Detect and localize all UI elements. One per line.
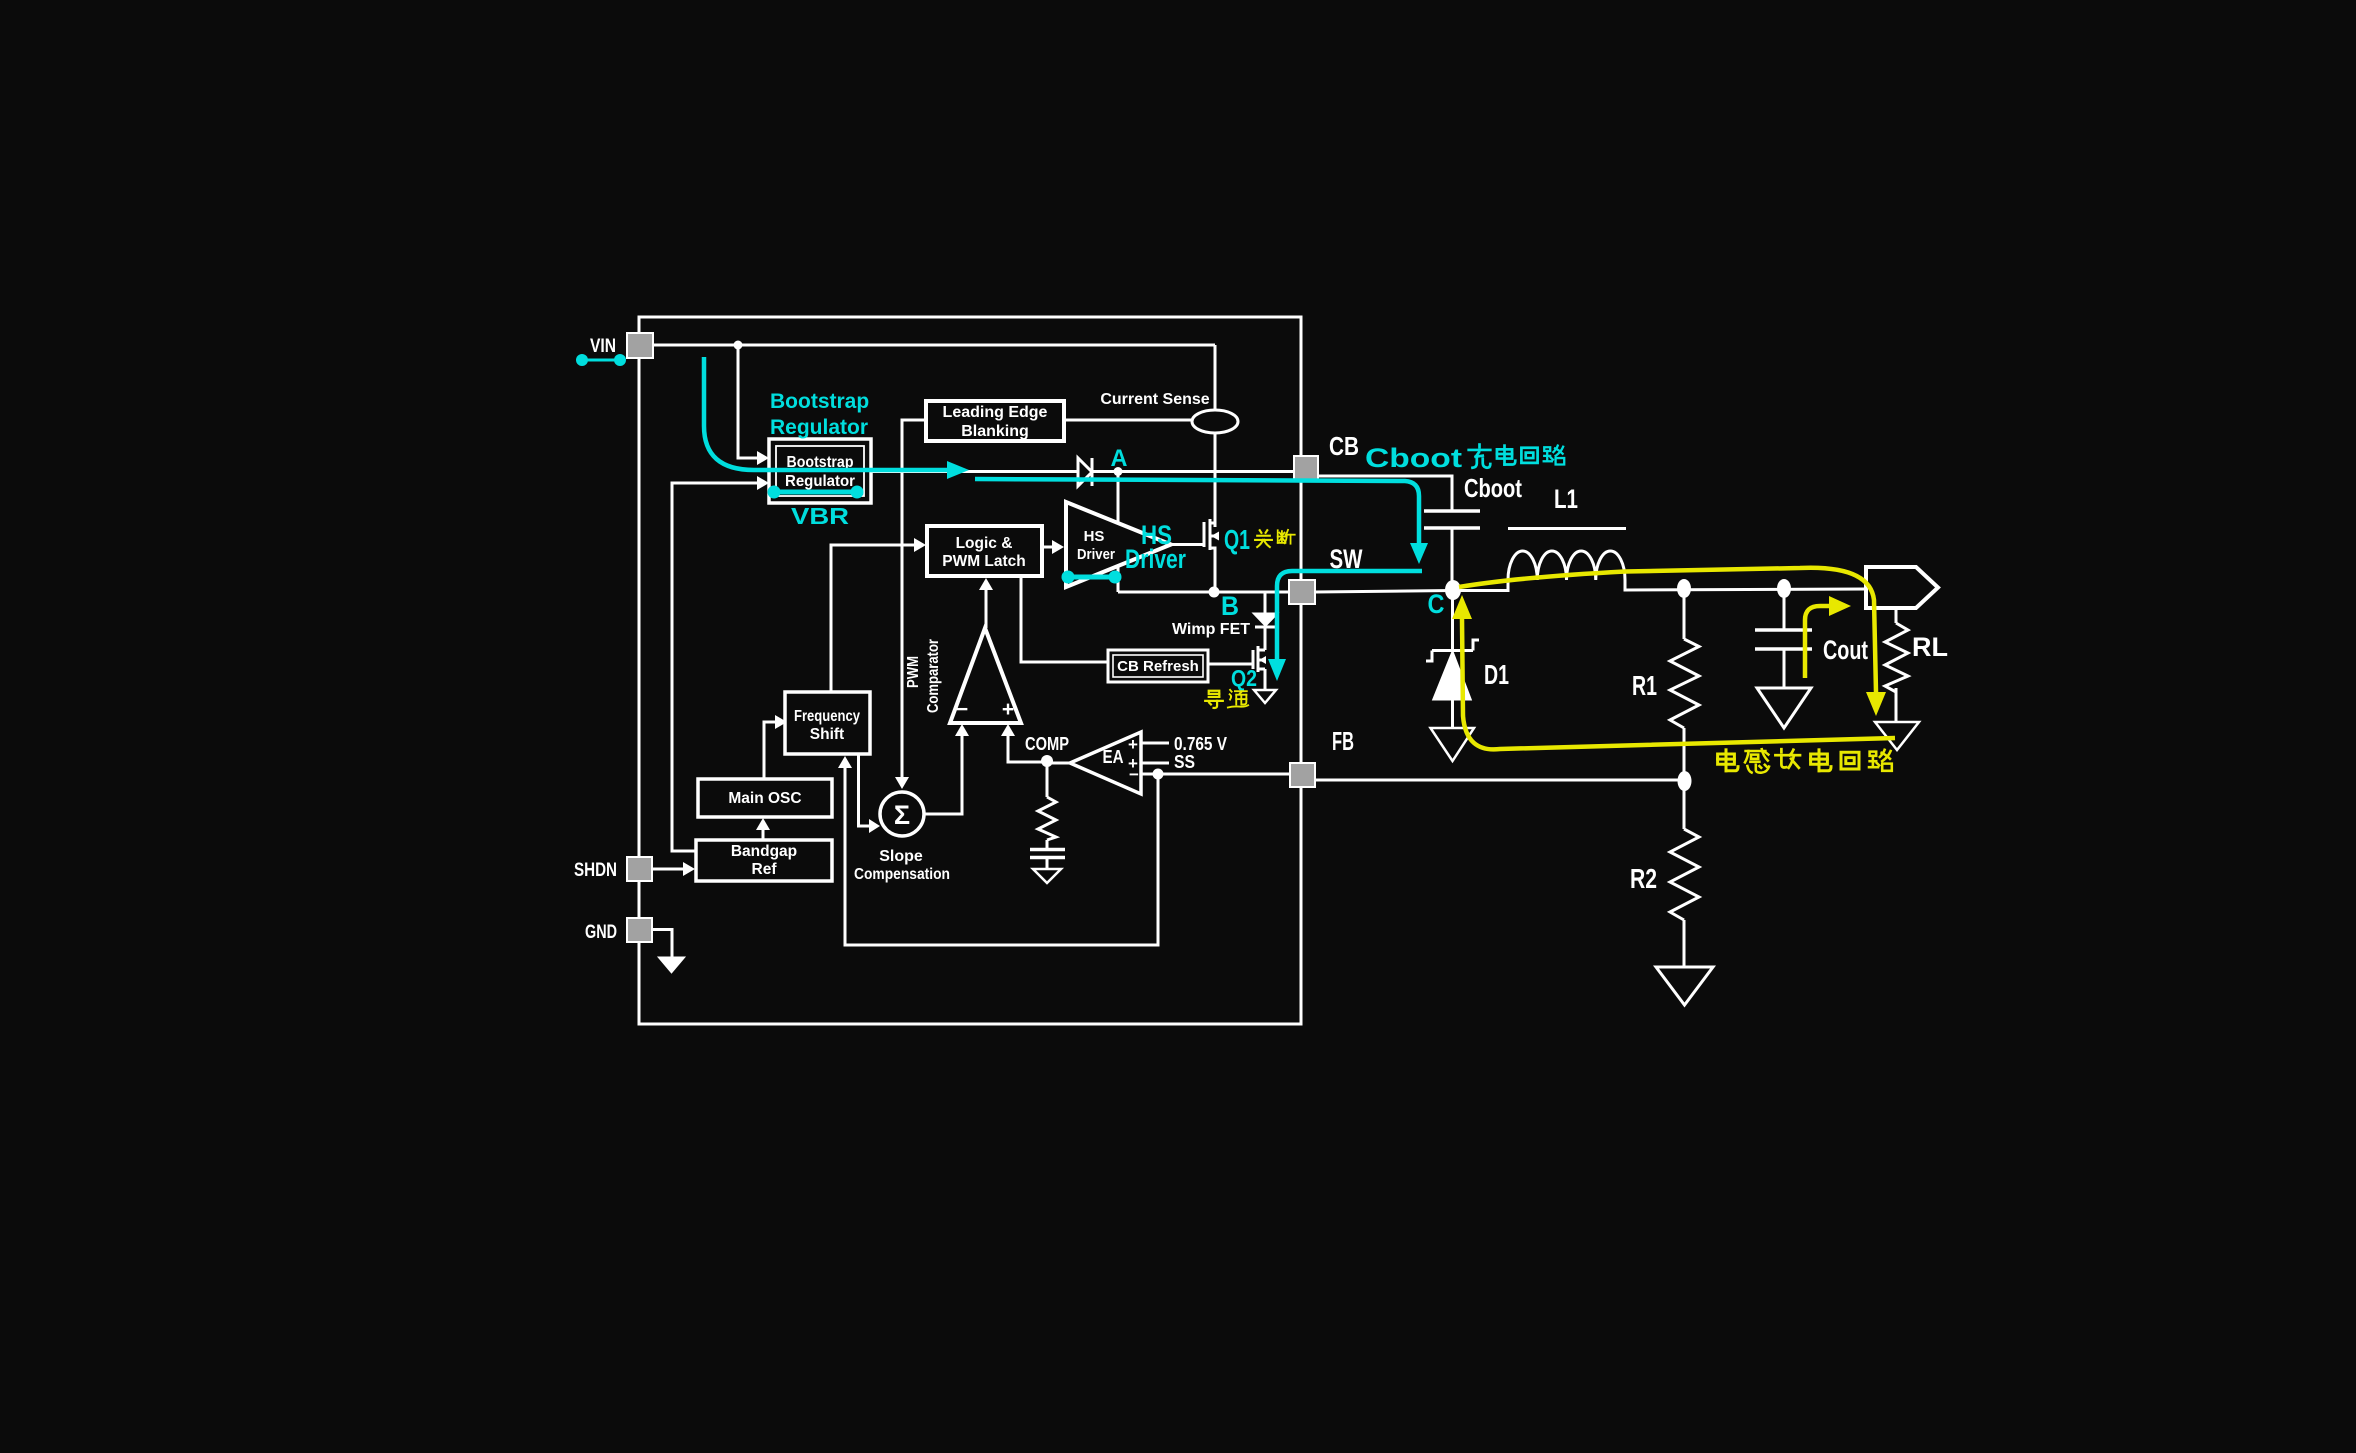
svg-text:COMP: COMP: [1025, 734, 1069, 754]
wimp FET body diode: [1255, 614, 1276, 627]
wire comp cap to ground: [1046, 858, 1049, 869]
wire EA refs stub 0.765V: [1141, 742, 1169, 745]
svg-text:Regulator: Regulator: [785, 473, 855, 490]
wire latch to CB refresh: [1021, 576, 1108, 662]
svg-text:Main OSC: Main OSC: [728, 790, 801, 807]
svg-text:Slope: Slope: [879, 848, 923, 865]
svg-text:CB Refresh: CB Refresh: [1117, 658, 1199, 675]
COMPONENTS: [658, 401, 1938, 1005]
pin FB: [1290, 763, 1315, 787]
svg-text:VIN: VIN: [590, 336, 616, 357]
Bootstrap Regulator box U-VBR: [769, 439, 871, 503]
node A junction dot: [1114, 467, 1123, 476]
wire VBR output to CB pin: [871, 470, 1294, 473]
svg-text:+: +: [1128, 735, 1138, 754]
Logic and PWM Latch box: [927, 526, 1042, 576]
svg-text:Driver: Driver: [1125, 544, 1186, 574]
capacitor Cboot: [1424, 511, 1480, 528]
wire EA output to COMP: [1047, 762, 1070, 765]
svg-text:CB: CB: [1329, 431, 1359, 461]
wire wimp diode to Q2: [1264, 627, 1267, 650]
current sense ellipse: [1192, 410, 1238, 433]
outer IC boundary box: [639, 317, 1301, 1024]
wire Cout branch: [1783, 589, 1786, 630]
svg-text:SHDN: SHDN: [574, 860, 617, 881]
svg-text:Wimp FET: Wimp FET: [1172, 621, 1250, 638]
svg-text:0.765 V: 0.765 V: [1174, 734, 1227, 754]
comp RC resistor: [1038, 797, 1056, 840]
wire comp RC middle: [1046, 840, 1049, 849]
wire Cboot to node C: [1451, 528, 1454, 581]
arrow SHDN into bandgap: [683, 862, 695, 876]
wire EA minus to FB pin: [1141, 773, 1290, 776]
arrow comparator into latch: [979, 578, 993, 590]
wire node C to D1: [1451, 591, 1454, 651]
wire cyan charge path A to CB to Cboot: [975, 479, 1419, 543]
svg-text:RL: RL: [1912, 632, 1948, 662]
svg-text:L1: L1: [1554, 484, 1578, 514]
wire R2 to ground: [1683, 920, 1686, 966]
arrow into bootstrap upper: [757, 451, 769, 465]
diode at node A: [1078, 458, 1092, 486]
wire cyan path SW to Q2: [1277, 571, 1422, 659]
wire node C to inductor: [1452, 580, 1508, 591]
EA triangle: [1070, 732, 1141, 794]
svg-text:Bandgap: Bandgap: [731, 843, 797, 860]
wire CB pin external to Cboot: [1318, 476, 1452, 511]
ground Cout: [1757, 688, 1811, 728]
wire pwm comparator to latch: [985, 590, 988, 628]
svg-text:−: −: [956, 698, 968, 721]
arrow into freq shift left: [775, 715, 787, 729]
wire bandgap to bootstrap reg lower input: [672, 483, 757, 851]
wire VIN rail top: [653, 344, 1215, 347]
svg-text:Current Sense: Current Sense: [1100, 391, 1209, 408]
arrow into bootstrap lower: [757, 476, 769, 490]
wire latch to HS driver: [1042, 546, 1052, 549]
svg-text:Q1: Q1: [1224, 524, 1250, 555]
wire R1 to FB junction: [1683, 728, 1686, 780]
ground under Q2: [1254, 690, 1276, 703]
arrow latch to HS driver: [1052, 540, 1064, 554]
transistor Q1: [1204, 519, 1215, 592]
wire GND pin to ground: [652, 930, 672, 958]
junction VIN rail: [734, 341, 743, 350]
wire leading edge blanking to current sense: [1064, 419, 1192, 422]
wire R1 branch: [1683, 589, 1686, 639]
arrow summer into comparator minus: [955, 724, 969, 736]
svg-text:PWM Latch: PWM Latch: [942, 553, 1026, 570]
wire leading edge blanking to slope summer: [902, 420, 926, 777]
svg-text:Blanking: Blanking: [961, 423, 1029, 440]
label Cboot charge loop CJK: [1469, 445, 1565, 468]
wire D1 to ground: [1451, 699, 1454, 728]
comp RC capacitor: [1030, 850, 1065, 858]
slope summer circle: [880, 792, 924, 836]
Main OSC box: [698, 779, 832, 817]
svg-text:R1: R1: [1632, 670, 1657, 701]
node B junction dot: [1209, 587, 1220, 598]
node VIN highlight dumbbell: [576, 354, 626, 366]
capacitor Cout: [1755, 630, 1812, 649]
svg-text:Driver: Driver: [1077, 546, 1115, 563]
wire COMP compensation branch: [1046, 762, 1049, 797]
svg-text:Comparator: Comparator: [925, 639, 942, 713]
Frequency Shift box: [785, 692, 870, 754]
Bandgap Ref box: [696, 840, 832, 881]
arrow feedback into freq shift bottom: [838, 756, 852, 768]
wire node A down to HS driver top: [1117, 472, 1120, 593]
svg-text:Ref: Ref: [752, 861, 778, 878]
svg-text:Compensation: Compensation: [854, 866, 950, 883]
label Q2 on CJK: [1205, 690, 1248, 708]
svg-text:Shift: Shift: [810, 726, 844, 743]
wire yellow Cout arrow: [1805, 606, 1829, 678]
wire bandgap to main osc: [762, 828, 765, 840]
wire freq shift top to logic latch: [831, 545, 914, 692]
wire COMP node to comparator plus: [1008, 736, 1047, 762]
ground R2: [1656, 967, 1713, 1005]
ground RL: [1875, 722, 1919, 750]
CYAN OVERLAY: [576, 354, 1428, 681]
svg-text:HS: HS: [1084, 528, 1105, 545]
CB Refresh box: [1108, 650, 1208, 682]
ground comp RC: [1033, 869, 1061, 883]
pin CB: [1294, 456, 1318, 480]
wire cyan Cboot charge path from VIN: [704, 357, 947, 470]
node C junction dot: [1445, 580, 1461, 600]
wire RL to ground: [1895, 688, 1898, 722]
svg-text:Cboot: Cboot: [1365, 443, 1462, 473]
svg-text:Logic &: Logic &: [956, 535, 1013, 552]
HS driver triangle: [1066, 502, 1171, 587]
Leading Edge Blanking box: [926, 401, 1064, 441]
wire SW pin external to node C: [1315, 591, 1452, 593]
junction EA feedback: [1153, 769, 1164, 780]
wire yellow discharge loop top C over L1 down at RL: [1459, 568, 1876, 692]
pin squares: [627, 333, 1318, 942]
svg-text:Q2: Q2: [1231, 665, 1257, 691]
wire VIN to current sense: [1214, 345, 1217, 527]
wire RL branch: [1895, 608, 1898, 623]
wire main osc to freq shift: [764, 722, 775, 779]
diode D1 schottky: [1426, 640, 1479, 699]
arrow COMP into comparator plus: [1001, 724, 1015, 736]
arrow bandgap into main osc: [756, 818, 770, 830]
wire freq shift to slope summer: [859, 754, 870, 826]
wire inductor to output rail: [1625, 580, 1866, 590]
pin SHDN: [627, 857, 652, 881]
wire SHDN to bandgap: [652, 868, 683, 871]
wire VIN junction to bootstrap reg input: [738, 345, 757, 458]
wire R2 branch: [1683, 781, 1686, 829]
node HS driver highlight dumbbell: [1062, 571, 1122, 584]
svg-text:+: +: [1002, 698, 1014, 721]
inductor L1: [1508, 551, 1625, 580]
white arrowheads: [683, 451, 1064, 876]
resistor R1: [1670, 639, 1699, 728]
arrow blanking into summer top: [895, 777, 909, 789]
PWM comparator triangle: [950, 628, 1021, 723]
output pentagon flag: [1866, 567, 1938, 608]
wire yellow discharge loop bottom D1 up to C: [1462, 619, 1895, 749]
svg-text:FB: FB: [1332, 726, 1354, 756]
WHITE TEXT: [574, 336, 1948, 943]
resistor RL: [1885, 623, 1908, 692]
wire Q2 source to ground: [1264, 669, 1267, 690]
svg-text:A: A: [1111, 445, 1128, 472]
wire SW rail B: [1118, 591, 1289, 594]
junction R1 top: [1677, 579, 1691, 598]
YELLOW OVERLAY: [1452, 568, 1895, 750]
svg-text:Frequency: Frequency: [794, 708, 860, 725]
svg-text:Bootstrap: Bootstrap: [770, 390, 869, 413]
svg-text:Cout: Cout: [1823, 635, 1868, 665]
svg-text:Σ: Σ: [894, 800, 910, 830]
svg-text:PWM: PWM: [905, 656, 922, 688]
svg-text:GND: GND: [585, 922, 617, 943]
arrow into summer left: [869, 819, 880, 833]
node VBR highlight dumbbell: [768, 486, 864, 499]
wire EA refs stub SS: [1141, 762, 1169, 765]
ground D1: [1431, 728, 1475, 761]
label inductor discharge loop CJK: [1718, 749, 1892, 772]
pin GND: [627, 918, 652, 942]
arrow into logic latch: [914, 538, 926, 552]
svg-text:−: −: [1129, 765, 1139, 784]
wire wimp FET branch: [1264, 592, 1267, 614]
wire HS driver output to Q1 gate: [1171, 543, 1204, 546]
svg-text:Leading Edge: Leading Edge: [943, 404, 1048, 421]
wire Cout to ground: [1783, 649, 1786, 688]
svg-text:SS: SS: [1174, 752, 1195, 772]
junction Cout top: [1777, 579, 1791, 598]
transistor Q2: [1253, 646, 1265, 672]
node COMP junction dot: [1041, 755, 1053, 767]
label Q1 off CJK: [1255, 530, 1295, 547]
junction R1 R2 feedback: [1678, 771, 1692, 791]
svg-text:EA: EA: [1103, 747, 1124, 767]
svg-text:R2: R2: [1630, 863, 1657, 894]
junction dots: [734, 341, 1792, 792]
svg-text:VBR: VBR: [791, 503, 849, 529]
wire CB refresh to Q2 gate: [1208, 663, 1253, 666]
wire feedback net to freq shift: [845, 766, 1158, 945]
resistor R2: [1670, 829, 1699, 920]
pin VIN: [627, 333, 653, 358]
wire slope summer to comparator minus: [924, 736, 962, 814]
svg-text:Regulator: Regulator: [770, 416, 868, 439]
wire FB pin external: [1315, 779, 1684, 782]
svg-text:B: B: [1221, 591, 1239, 621]
ground GND pin (filled): [658, 957, 685, 973]
pin SW: [1289, 580, 1315, 604]
svg-text:Cboot: Cboot: [1464, 473, 1522, 503]
svg-text:D1: D1: [1484, 659, 1509, 690]
svg-text:C: C: [1428, 589, 1445, 619]
